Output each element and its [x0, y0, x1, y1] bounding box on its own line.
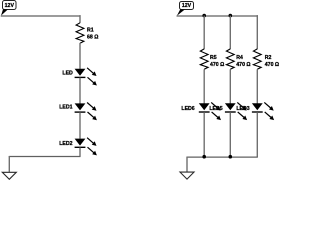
wire R1 to LED	[79, 43, 81, 69]
svg-text:LED6: LED6	[181, 106, 194, 112]
svg-text:12V: 12V	[182, 3, 192, 9]
svg-text:LED2: LED2	[59, 141, 72, 147]
ground (left circuit)	[2, 172, 16, 179]
wire R4 to LED5	[229, 69, 231, 103]
power flag V1 12V (left)	[1, 1, 16, 16]
wire LED5 to bottom	[229, 112, 231, 157]
wire down to ground right	[186, 157, 188, 172]
LED light arrows	[87, 68, 97, 86]
svg-text:68 Ω: 68 Ω	[87, 34, 98, 40]
label R5 value 470 ohm	[210, 55, 224, 68]
svg-text:LED1: LED1	[59, 105, 72, 111]
svg-text:R2: R2	[265, 55, 272, 61]
svg-text:12V: 12V	[5, 3, 15, 9]
LED6	[199, 103, 210, 112]
junction dot bottom branch 1	[202, 155, 206, 159]
svg-text:R5: R5	[210, 55, 217, 61]
label R4 value 470 ohm	[236, 55, 250, 68]
wire LED2 down to bottom corner	[79, 148, 81, 157]
svg-text:470 Ω: 470 Ω	[210, 62, 224, 68]
LED1	[75, 103, 86, 112]
wire LED3 to bottom	[256, 112, 258, 157]
svg-text:470 Ω: 470 Ω	[265, 62, 279, 68]
LED5 light arrows	[237, 102, 247, 120]
wire vertical stub from corner to R1	[79, 15, 81, 23]
svg-text:470 Ω: 470 Ω	[236, 62, 250, 68]
junction dot bottom branch 2	[229, 155, 233, 159]
label R2 value 470 ohm	[265, 55, 279, 68]
resistor R5	[200, 49, 208, 69]
svg-text:LED: LED	[62, 71, 73, 77]
wire down to ground left	[8, 156, 10, 172]
wire R5 to LED6	[203, 69, 205, 103]
svg-text:R4: R4	[236, 55, 243, 61]
wire LED6 to bottom	[203, 112, 205, 157]
wire top horizontal right circuit	[177, 15, 258, 17]
wire LED1 to LED2	[79, 112, 81, 138]
wire top to R5	[203, 16, 205, 50]
LED3	[252, 103, 263, 112]
LED2 light arrows	[87, 138, 97, 156]
wire top horizontal left circuit	[1, 15, 81, 17]
LED2	[75, 139, 86, 148]
junction dot top branch 2	[229, 14, 233, 18]
svg-text:R1: R1	[87, 27, 94, 33]
resistor R4	[226, 49, 234, 69]
LED6 light arrows	[211, 102, 221, 120]
wire bottom horizontal right circuit	[187, 156, 258, 158]
resistor R2	[253, 49, 261, 69]
ground (right circuit)	[180, 172, 194, 179]
junction dot top branch 1	[202, 14, 206, 18]
label R1 value 68 ohm	[87, 27, 98, 40]
LED5	[225, 103, 236, 112]
wire LED to LED1	[79, 78, 81, 104]
wire R2 to LED3	[256, 69, 258, 103]
resistor R1	[76, 23, 84, 43]
wire bottom horizontal left circuit	[9, 156, 81, 158]
LED (top of left series)	[75, 69, 86, 78]
wire top to R4	[229, 16, 231, 50]
LED3 light arrows	[264, 102, 274, 120]
LED1 light arrows	[87, 103, 97, 121]
power flag V2 12V (right)	[177, 2, 194, 16]
wire top to R2	[256, 15, 258, 49]
